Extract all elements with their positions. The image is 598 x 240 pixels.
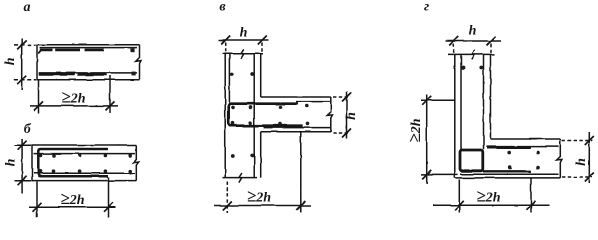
svg-text:в: в [219, 0, 226, 15]
svg-text:б: б [24, 122, 32, 137]
svg-text:≥2h: ≥2h [476, 187, 500, 206]
svg-text:г: г [424, 0, 429, 15]
svg-text:≥2h: ≥2h [61, 88, 85, 107]
svg-text:а: а [24, 0, 31, 15]
svg-text:h: h [344, 112, 359, 120]
svg-text:h: h [240, 26, 248, 41]
svg-text:h: h [574, 158, 589, 166]
svg-text:h: h [3, 57, 18, 65]
svg-text:≥2h: ≥2h [247, 187, 271, 206]
svg-text:h: h [4, 158, 19, 166]
svg-text:h: h [469, 24, 477, 39]
svg-text:≥2h: ≥2h [405, 118, 424, 142]
svg-text:≥2h: ≥2h [60, 189, 84, 208]
